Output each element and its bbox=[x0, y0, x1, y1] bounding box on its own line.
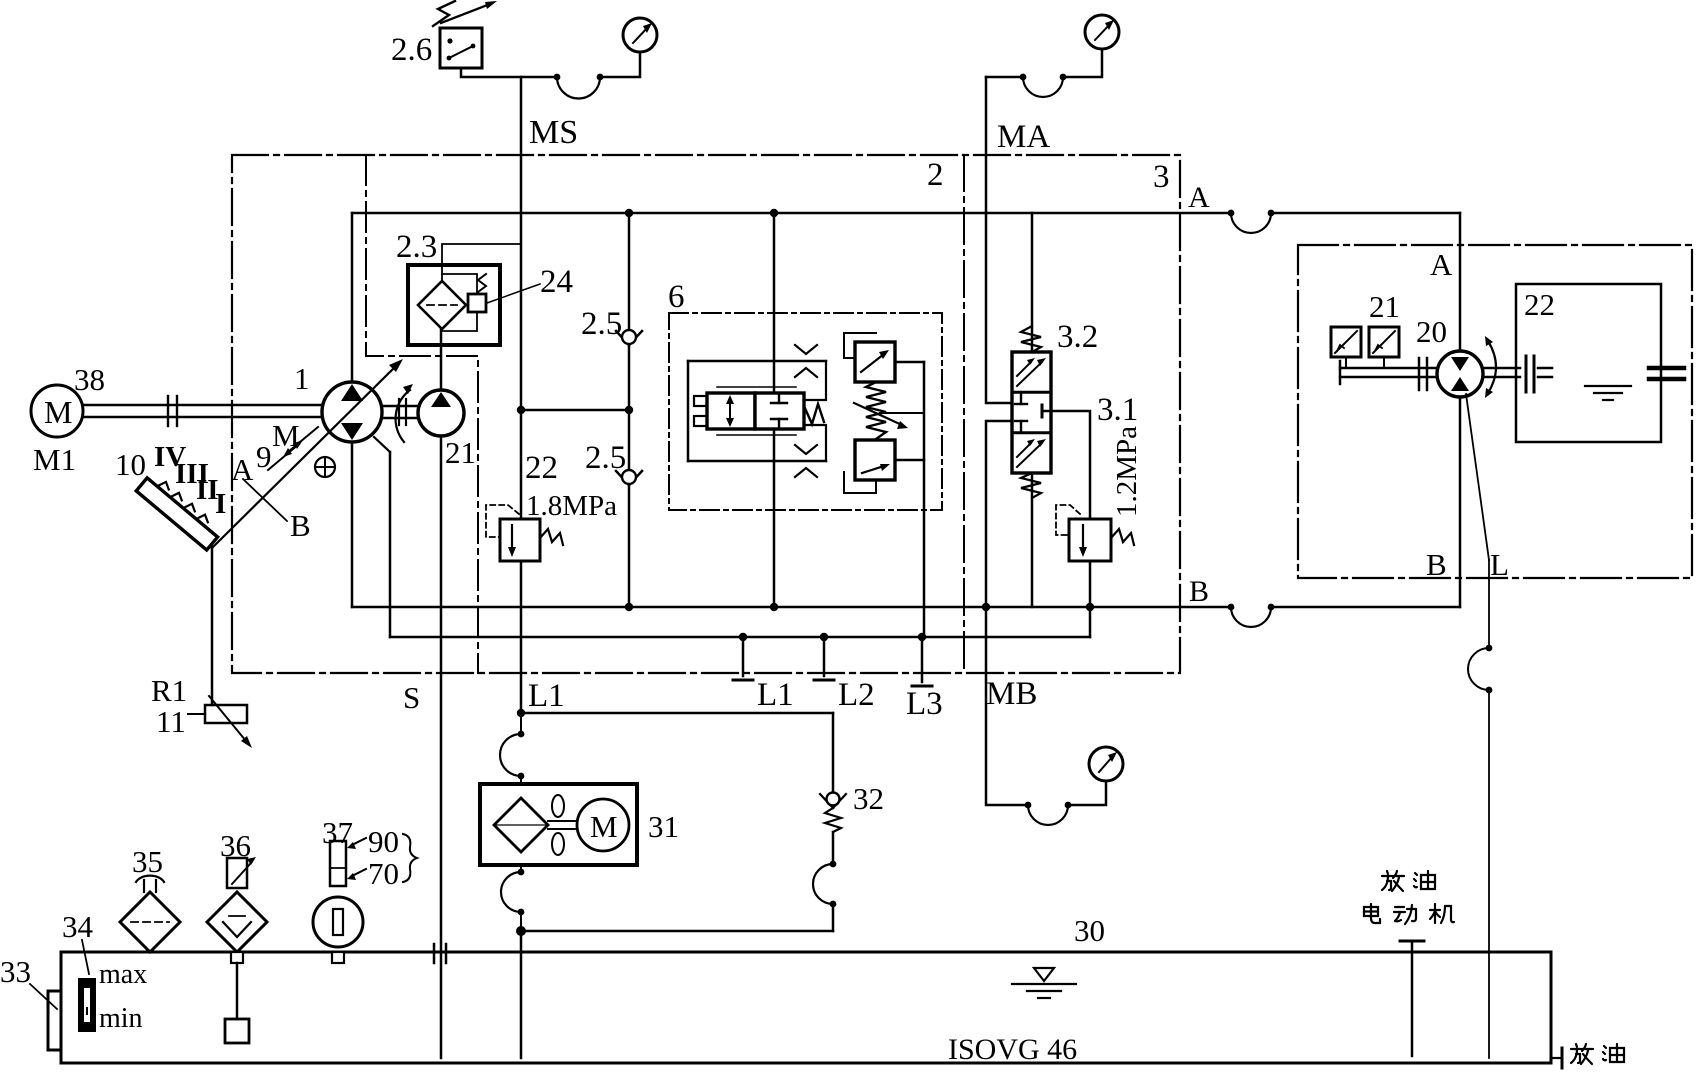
lever 10 (multi-position control) bbox=[136, 471, 223, 550]
zero-position symbol bbox=[315, 457, 335, 477]
stroke range line A-B bbox=[243, 479, 287, 521]
wire to valve 3.2 from A rail bbox=[1031, 213, 1034, 352]
svg-text:2.5: 2.5 bbox=[585, 440, 626, 476]
tank access bracket 33 bbox=[48, 991, 61, 1050]
svg-text:2.3: 2.3 bbox=[396, 229, 437, 265]
svg-text:33: 33 bbox=[0, 954, 31, 989]
check valve 2.5 lower bbox=[616, 470, 642, 485]
svg-text:1.2MPa: 1.2MPa bbox=[1111, 426, 1143, 517]
block 6 left rail bbox=[687, 361, 690, 461]
svg-text:10: 10 bbox=[115, 447, 146, 482]
leader 34 bbox=[82, 940, 89, 974]
wire tap MS to check column bbox=[521, 406, 633, 414]
breather marks upper bbox=[795, 345, 817, 377]
hydraulic motor 20 bbox=[1437, 351, 1483, 397]
svg-text:22: 22 bbox=[1524, 287, 1555, 322]
svg-text:S: S bbox=[403, 680, 420, 715]
wire filter outlet to MS line bbox=[442, 244, 521, 281]
svg-text:20: 20 bbox=[1416, 314, 1447, 349]
wire L leakage line bbox=[1466, 394, 1492, 1058]
svg-text:35: 35 bbox=[132, 844, 163, 879]
svg-text:max: max bbox=[99, 959, 147, 990]
svg-text:6: 6 bbox=[668, 279, 685, 315]
svg-text:L: L bbox=[1490, 547, 1509, 582]
svg-text:L2: L2 bbox=[838, 677, 875, 713]
pump 21 (auxiliary) bbox=[418, 390, 464, 436]
drive shaft M1 to pump 1 bbox=[83, 396, 322, 426]
brace 90/70 bbox=[403, 834, 417, 882]
pump 1 (variable displacement) bbox=[322, 382, 382, 442]
wire valve 3.2 down to B rail bbox=[1031, 473, 1034, 607]
block 6 upper rail bbox=[688, 360, 826, 363]
thermometer 37 bbox=[313, 838, 366, 963]
filter 2.3 element bbox=[418, 281, 466, 329]
svg-text:A: A bbox=[1430, 247, 1453, 282]
valve 3.2 (3-position cartridge) bbox=[1012, 326, 1051, 498]
svg-text:L1: L1 bbox=[757, 677, 794, 713]
wire MA vertical to valve 3.2 port bbox=[986, 77, 1012, 403]
check valve 32 bbox=[820, 793, 846, 833]
svg-text:21: 21 bbox=[1369, 289, 1400, 324]
drain port bottom right bbox=[1551, 1048, 1562, 1068]
svg-text:1: 1 bbox=[294, 361, 310, 396]
shaft motor 20 right with coupling bbox=[1483, 356, 1552, 392]
wire hop below cooler bbox=[501, 865, 524, 931]
level gauge 34 bbox=[78, 978, 96, 1032]
svg-text:B: B bbox=[1426, 547, 1447, 582]
bidirectional rotation arrow bbox=[1485, 336, 1496, 398]
wire filter to pump 21 bbox=[440, 329, 443, 391]
svg-text:3.1: 3.1 bbox=[1097, 392, 1138, 428]
rotation arrow pump 21 bbox=[396, 384, 413, 442]
svg-text:I: I bbox=[215, 488, 226, 520]
wire MB down to gauge loop bbox=[986, 607, 1028, 805]
drain motor suction pipe bbox=[1400, 941, 1424, 1056]
speed sensors 21 bbox=[1331, 327, 1399, 368]
svg-text:2.6: 2.6 bbox=[391, 32, 432, 68]
enclosure box 2/3 (dash-dot) bbox=[232, 155, 1180, 673]
plugged port L1 bbox=[733, 637, 753, 680]
svg-text:36: 36 bbox=[220, 828, 251, 863]
svg-text:34: 34 bbox=[62, 909, 94, 944]
svg-text:A: A bbox=[1188, 181, 1210, 214]
adjust arrow across spring bbox=[854, 403, 908, 429]
wire MS / pilot line vertical bbox=[517, 77, 525, 519]
svg-text:31: 31 bbox=[648, 809, 679, 844]
svg-text:MA: MA bbox=[997, 119, 1050, 155]
shaft motor 20 left bbox=[1340, 358, 1437, 390]
svg-text:min: min bbox=[99, 1003, 143, 1034]
wire B rail bbox=[352, 603, 1460, 627]
svg-text:24: 24 bbox=[540, 264, 573, 300]
check valve column bbox=[628, 213, 631, 607]
pressure gauge MB bbox=[1089, 747, 1123, 781]
svg-text:11: 11 bbox=[156, 704, 186, 739]
breather marks lower bbox=[795, 445, 817, 477]
pressure gauge MS bbox=[623, 18, 657, 52]
separator between module 2 and 3 bbox=[963, 155, 965, 673]
wire S pump21 suction to tank bbox=[434, 436, 446, 1058]
output coupling bars bbox=[1649, 368, 1684, 379]
relief valve lower in block 6 bbox=[844, 440, 895, 493]
wire hop above cooler bbox=[500, 713, 524, 784]
resistor R1 bbox=[188, 696, 252, 748]
block 6 right rail down to drain bbox=[880, 362, 924, 637]
wire 32 to tank loop with hop bbox=[813, 832, 836, 931]
valve block 6 boundary (dash-dot) bbox=[669, 313, 942, 510]
svg-text:M: M bbox=[44, 394, 72, 430]
spring between relief valves bbox=[866, 382, 886, 439]
svg-text:2: 2 bbox=[927, 157, 944, 193]
svg-text:M: M bbox=[590, 809, 618, 844]
wire pump1 down to B rail bbox=[351, 442, 354, 607]
svg-text:1.8MPa: 1.8MPa bbox=[526, 490, 617, 522]
wire A rail bbox=[352, 209, 1460, 233]
svg-text:MB: MB bbox=[986, 676, 1037, 712]
label drain port (Chinese) bbox=[1571, 1044, 1624, 1064]
relief valve 3.1 (1.2MPa) bbox=[1056, 505, 1134, 561]
svg-text:L3: L3 bbox=[906, 686, 943, 722]
lever link down to R1 bbox=[211, 547, 214, 705]
svg-text:M1: M1 bbox=[33, 442, 76, 477]
manual stroke arrows bbox=[268, 427, 318, 470]
variable displacement arrow through pump 1 bbox=[213, 359, 403, 547]
gearbox 22 bbox=[1516, 284, 1661, 442]
svg-text:22: 22 bbox=[525, 450, 558, 486]
electric motor M1 bbox=[31, 385, 83, 437]
svg-text:B: B bbox=[290, 508, 311, 543]
svg-text:70: 70 bbox=[368, 856, 399, 891]
svg-text:B: B bbox=[1189, 575, 1209, 608]
wire pump1 pressure up bbox=[351, 213, 354, 382]
wire 3.1 outlet down bbox=[1089, 561, 1092, 637]
tank fluid level symbol bbox=[1012, 968, 1076, 998]
wire MB hop bbox=[1025, 781, 1106, 825]
filter 2.3 enclosure bbox=[408, 265, 500, 345]
shuttle valve body in block 6 bbox=[694, 387, 824, 435]
wire MS down to border bbox=[520, 561, 523, 713]
plugged port L3 bbox=[912, 637, 932, 686]
wire 3.2 right port to valve 3.1 bbox=[1042, 411, 1090, 519]
filler filter 36 bbox=[207, 857, 267, 1043]
svg-text:A: A bbox=[231, 452, 254, 487]
wire drain rail bbox=[390, 633, 1090, 641]
relief valve upper in block 6 bbox=[844, 333, 895, 382]
pressure gauge MA bbox=[1063, 15, 1119, 77]
shaft pump1 to pump21 bbox=[382, 399, 418, 425]
oil tank 30 bbox=[61, 952, 1551, 1063]
leader 33 bbox=[30, 984, 57, 1009]
svg-text:R1: R1 bbox=[151, 673, 187, 708]
check valve 2.5 upper bbox=[616, 330, 642, 345]
block 6 lower rail bbox=[688, 460, 826, 463]
breather filter 35 bbox=[120, 876, 180, 952]
svg-text:38: 38 bbox=[74, 362, 105, 397]
svg-text:MS: MS bbox=[529, 114, 578, 151]
wire 3.2 port to MB line bbox=[986, 421, 1012, 607]
plugged port L2 bbox=[814, 637, 834, 680]
tank symbol in gearbox bbox=[1585, 386, 1631, 400]
wire from 2.6 to MS node bbox=[461, 52, 640, 98]
wire MA hop bbox=[986, 74, 1066, 97]
oil cooler 31 bbox=[480, 784, 637, 865]
svg-text:2.5: 2.5 bbox=[581, 306, 622, 342]
right drive unit enclosure (dash-dot) bbox=[1298, 245, 1692, 578]
svg-text:37: 37 bbox=[322, 815, 353, 850]
wire motor 20 to B bbox=[1459, 397, 1462, 607]
wire pump1 case drain bbox=[374, 437, 390, 637]
pressure switch 2.6 bbox=[433, 1, 497, 68]
sub-module boundary (pump unit) bbox=[366, 155, 478, 673]
svg-text:3.2: 3.2 bbox=[1057, 319, 1098, 355]
svg-text:30: 30 bbox=[1074, 913, 1105, 948]
wire L1 drain loop top bbox=[517, 709, 833, 717]
wire through valve block 6 bbox=[773, 213, 776, 607]
relief valve 22 (1.8MPa) bbox=[486, 505, 563, 561]
svg-text:3: 3 bbox=[1153, 159, 1170, 195]
label drain motor (Chinese) bbox=[1364, 871, 1454, 924]
bypass valve 24 bbox=[442, 274, 540, 331]
wire cooler return to tank bbox=[516, 926, 833, 1058]
check valve 32 branch bbox=[832, 713, 835, 793]
svg-text:L1: L1 bbox=[528, 678, 565, 714]
wire A into motor 20 bbox=[1459, 213, 1462, 351]
svg-text:21: 21 bbox=[445, 435, 476, 470]
svg-text:90: 90 bbox=[368, 824, 399, 859]
block 6 right drops into valve bbox=[806, 361, 826, 400]
svg-text:ISOVG 46: ISOVG 46 bbox=[948, 1033, 1077, 1066]
svg-text:32: 32 bbox=[853, 781, 884, 816]
